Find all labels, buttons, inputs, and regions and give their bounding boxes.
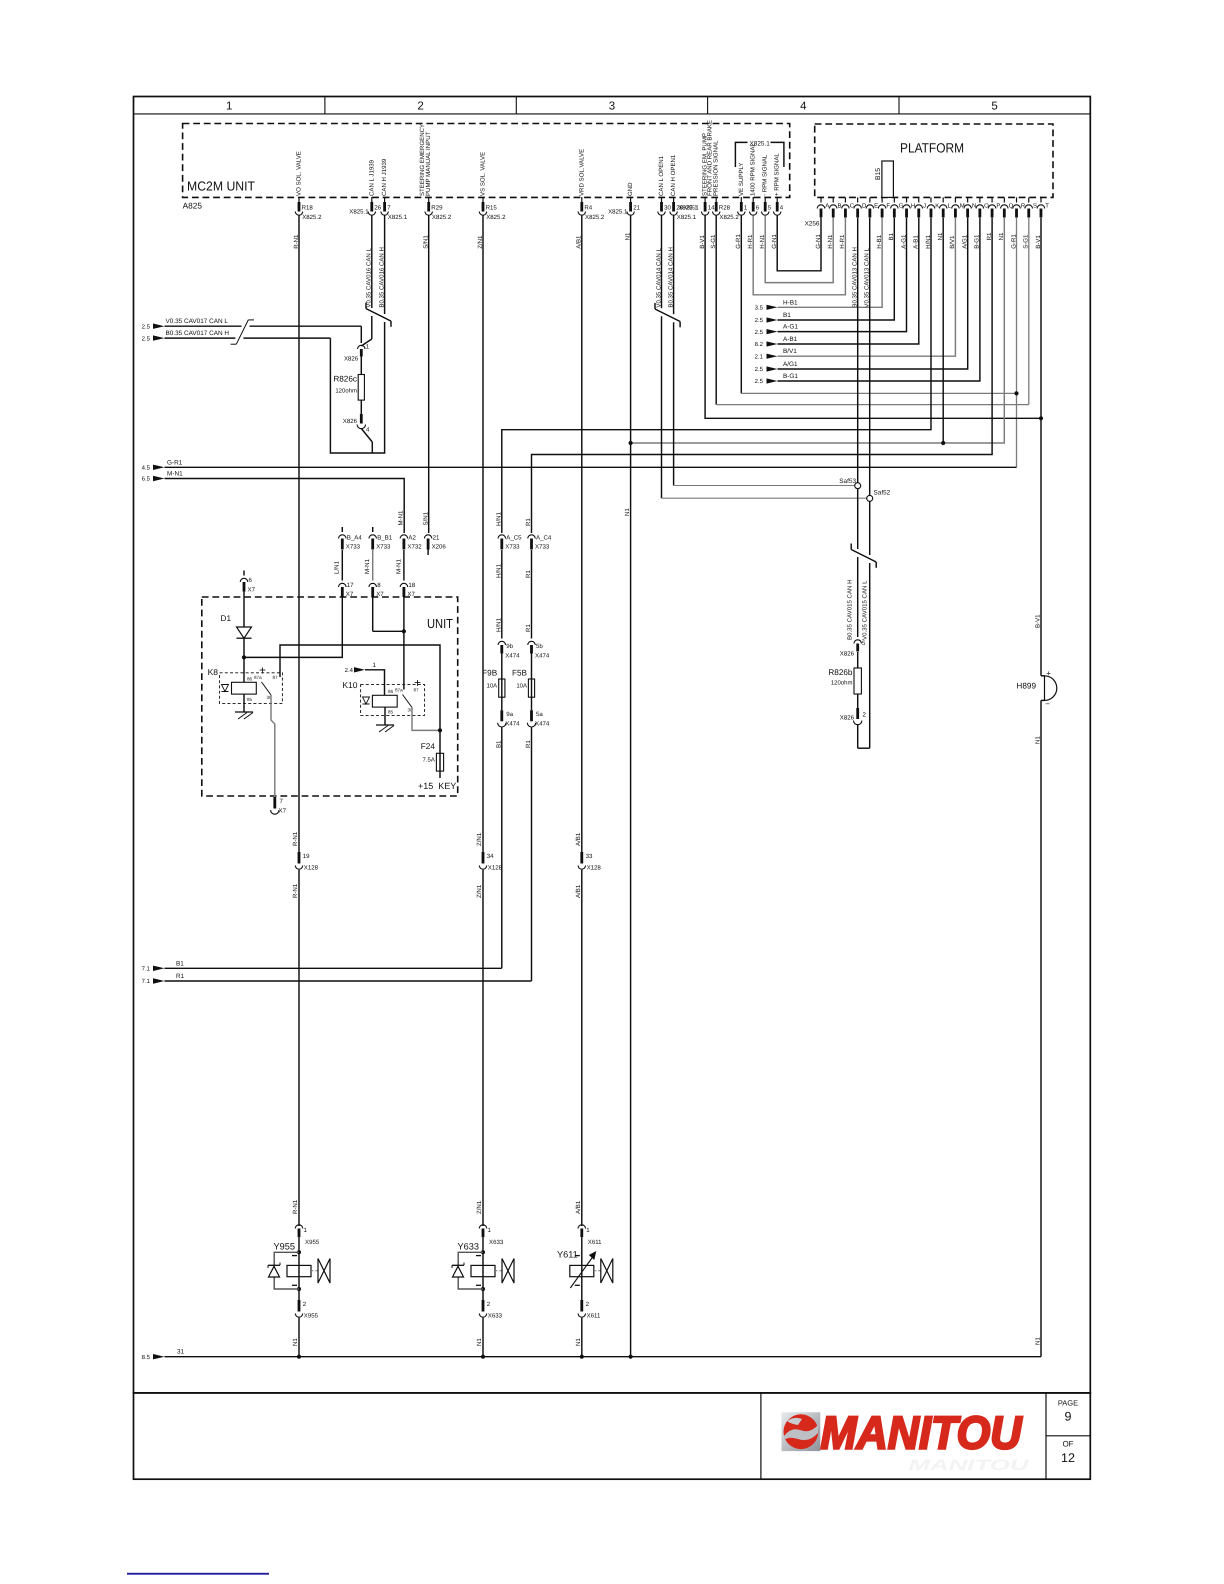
svg-text:- RPM SIGNAL: - RPM SIGNAL (762, 154, 769, 196)
svg-text:X825.1: X825.1 (388, 214, 408, 221)
svg-text:H/N1: H/N1 (495, 564, 502, 578)
svg-text:1: 1 (366, 344, 370, 351)
svg-text:PRESSION SIGNAL: PRESSION SIGNAL (713, 140, 720, 196)
svg-text:S: S (1033, 202, 1037, 209)
svg-text:A_C5: A_C5 (506, 535, 522, 542)
svg-text:5a: 5a (536, 711, 543, 718)
svg-text:N1: N1 (624, 508, 631, 516)
svg-text:X474: X474 (535, 653, 550, 660)
svg-text:X128: X128 (587, 865, 602, 872)
svg-text:8.2: 8.2 (755, 341, 764, 348)
svg-text:X611: X611 (588, 1239, 602, 1246)
svg-text:A_C4: A_C4 (536, 535, 552, 542)
svg-text:CAN H OPEN1: CAN H OPEN1 (670, 154, 677, 196)
svg-text:B15: B15 (875, 168, 882, 180)
svg-text:X825.2: X825.2 (302, 214, 322, 221)
svg-text:J: J (923, 202, 926, 209)
svg-text:X256: X256 (805, 221, 820, 228)
svg-text:R826c: R826c (333, 375, 357, 384)
svg-text:MANITOU: MANITOU (821, 1407, 1024, 1459)
svg-text:L/N1: L/N1 (334, 561, 341, 574)
svg-text:7.5A: 7.5A (423, 757, 435, 764)
svg-text:A825: A825 (183, 201, 203, 211)
svg-text:+: + (1046, 669, 1051, 678)
svg-text:H/N1: H/N1 (495, 512, 502, 526)
svg-text:B/V1: B/V1 (783, 348, 797, 355)
svg-text:B: B (838, 202, 842, 209)
svg-text:30: 30 (664, 205, 671, 212)
svg-text:B-G1: B-G1 (783, 373, 798, 380)
svg-text:P: P (996, 202, 1000, 209)
svg-text:Y633: Y633 (458, 1242, 479, 1252)
svg-text:87a: 87a (395, 688, 403, 693)
svg-text:X732: X732 (407, 544, 422, 551)
svg-text:26: 26 (374, 205, 381, 212)
svg-text:VS SOL. VALVE: VS SOL. VALVE (480, 152, 487, 196)
svg-text:R18: R18 (302, 205, 314, 212)
svg-text:4: 4 (780, 205, 784, 212)
svg-text:85: 85 (247, 697, 253, 702)
svg-text:18: 18 (408, 582, 415, 589)
svg-text:X825.2: X825.2 (585, 214, 605, 221)
svg-text:R-N1: R-N1 (292, 1199, 299, 1214)
svg-text:F9B: F9B (482, 669, 498, 678)
svg-text:X825.1: X825.1 (678, 205, 698, 212)
svg-text:UNIT: UNIT (427, 616, 453, 631)
svg-text:A: A (825, 202, 829, 209)
svg-text:Z/N1: Z/N1 (476, 1200, 483, 1214)
svg-text:N1: N1 (476, 1338, 483, 1346)
svg-text:R1: R1 (525, 740, 532, 748)
svg-text:Z/N1: Z/N1 (476, 884, 483, 898)
svg-text:R1: R1 (525, 570, 532, 578)
svg-text:X206: X206 (432, 544, 447, 551)
svg-text:VRD SOL.VALVE: VRD SOL.VALVE (578, 149, 585, 196)
svg-text:X825.1: X825.1 (608, 209, 628, 216)
svg-text:X7: X7 (346, 591, 354, 598)
svg-text:B_B1: B_B1 (377, 535, 393, 542)
svg-text:X825.1: X825.1 (349, 209, 369, 216)
svg-text:X826: X826 (344, 356, 359, 363)
svg-text:X7: X7 (407, 591, 415, 598)
svg-text:Z/N1: Z/N1 (476, 832, 483, 846)
svg-text:21: 21 (433, 535, 440, 542)
svg-text:2.4: 2.4 (345, 667, 354, 674)
svg-text:1400 RPM SIGNAL: 1400 RPM SIGNAL (750, 143, 757, 196)
svg-text:B0.35 CAV015 CAN H: B0.35 CAV015 CAN H (847, 579, 854, 640)
svg-text:6: 6 (756, 205, 760, 212)
svg-text:R1: R1 (525, 624, 532, 632)
svg-text:86: 86 (247, 677, 253, 682)
svg-text:2: 2 (417, 101, 423, 113)
svg-text:87a: 87a (254, 675, 262, 680)
svg-text:X825.2: X825.2 (432, 214, 452, 221)
svg-text:F: F (886, 202, 890, 209)
svg-text:K10: K10 (342, 680, 357, 690)
svg-text:5b: 5b (536, 643, 543, 650)
svg-text:M-N1: M-N1 (398, 510, 405, 526)
svg-text:A/G1: A/G1 (783, 361, 798, 368)
svg-text:X611: X611 (587, 1313, 601, 1320)
svg-text:R28: R28 (719, 205, 731, 212)
svg-text:Saf52: Saf52 (874, 490, 891, 497)
svg-text:2.1: 2.1 (755, 353, 764, 360)
svg-text:M-N1: M-N1 (395, 558, 402, 574)
svg-text:9a: 9a (506, 711, 513, 718)
svg-text:R-N1: R-N1 (292, 831, 299, 846)
svg-text:T: T (1045, 202, 1049, 209)
svg-text:N1: N1 (1035, 1337, 1042, 1345)
svg-text:+ RPM SIGNAL: + RPM SIGNAL (774, 153, 781, 196)
svg-text:10A: 10A (487, 683, 498, 690)
svg-text:M-N1: M-N1 (364, 558, 371, 574)
svg-text:R29: R29 (431, 205, 443, 212)
svg-text:−: − (1045, 700, 1050, 709)
svg-text:B_A4: B_A4 (347, 535, 363, 542)
svg-text:X7: X7 (248, 587, 256, 594)
svg-text:X474: X474 (505, 721, 520, 728)
svg-text:X7: X7 (279, 808, 287, 815)
svg-text:87: 87 (414, 688, 420, 693)
svg-text:X825.2: X825.2 (486, 214, 506, 221)
svg-text:1: 1 (586, 1227, 590, 1234)
svg-text:B1: B1 (176, 960, 184, 967)
svg-text:R1: R1 (176, 973, 185, 980)
svg-text:CAN L J1939: CAN L J1939 (368, 159, 375, 196)
svg-text:3: 3 (609, 101, 615, 113)
svg-text:R1: R1 (525, 518, 532, 526)
svg-text:4.5: 4.5 (142, 465, 151, 472)
svg-text:R15: R15 (486, 205, 498, 212)
svg-text:X825.1: X825.1 (677, 214, 697, 221)
svg-text:R826b: R826b (828, 668, 853, 677)
svg-text:2.5: 2.5 (755, 317, 764, 324)
svg-text:5: 5 (768, 205, 772, 212)
svg-text:9b: 9b (506, 643, 513, 650)
svg-text:85: 85 (388, 710, 394, 715)
svg-text:8.5: 8.5 (142, 1354, 151, 1361)
svg-text:86: 86 (388, 689, 394, 694)
svg-text:CAN H J1939: CAN H J1939 (381, 158, 388, 196)
svg-text:S/N1: S/N1 (422, 511, 429, 525)
svg-text:Y611: Y611 (557, 1250, 578, 1260)
svg-text:9: 9 (1065, 1410, 1072, 1424)
svg-text:2.5: 2.5 (755, 366, 764, 373)
svg-text:B1: B1 (495, 740, 502, 748)
svg-text:A/B1: A/B1 (575, 884, 582, 898)
svg-text:2: 2 (303, 1301, 307, 1308)
svg-text:PLATFORM: PLATFORM (900, 141, 964, 156)
svg-text:X474: X474 (535, 721, 550, 728)
svg-text:A/B1: A/B1 (575, 832, 582, 846)
svg-text:X733: X733 (535, 544, 550, 551)
svg-text:3.5: 3.5 (755, 305, 764, 312)
svg-text:X733: X733 (505, 544, 520, 551)
svg-text:17: 17 (347, 582, 354, 589)
svg-text:120ohm: 120ohm (335, 388, 357, 395)
svg-text:MC2M UNIT: MC2M UNIT (187, 179, 255, 194)
svg-text:H/N1: H/N1 (495, 618, 502, 632)
svg-text:X826: X826 (840, 651, 855, 658)
svg-text:X826: X826 (343, 418, 358, 425)
svg-text:Saf53: Saf53 (839, 478, 856, 485)
svg-text:+15 KEY: +15 KEY (418, 781, 456, 791)
svg-text:1: 1 (373, 662, 377, 669)
svg-text:2: 2 (487, 1301, 491, 1308)
svg-text:X633: X633 (489, 1239, 504, 1246)
svg-text:H-B1: H-B1 (783, 299, 798, 306)
svg-text:X7: X7 (376, 591, 384, 598)
svg-text:PUMP MANUAL INPUT: PUMP MANUAL INPUT (425, 131, 432, 196)
svg-text:2.5: 2.5 (755, 329, 764, 336)
svg-text:K: K (935, 202, 939, 209)
svg-text:F5B: F5B (512, 669, 528, 678)
svg-text:VE SUPPLY: VE SUPPLY (738, 163, 745, 196)
svg-text:4: 4 (800, 101, 807, 113)
svg-text:B0.35 CAV017 CAN H: B0.35 CAV017 CAN H (166, 330, 230, 337)
svg-text:X733: X733 (346, 544, 361, 551)
svg-text:G-R1: G-R1 (167, 459, 183, 466)
svg-text:34: 34 (487, 853, 494, 860)
svg-text:X826: X826 (840, 715, 855, 722)
svg-text:6.5: 6.5 (142, 476, 151, 483)
svg-text:X128: X128 (304, 865, 319, 872)
svg-text:120ohm: 120ohm (831, 680, 853, 687)
svg-text:A2: A2 (408, 535, 416, 542)
svg-text:K8: K8 (208, 667, 219, 677)
svg-text:X955: X955 (304, 1313, 319, 1320)
svg-text:E: E (874, 202, 878, 209)
svg-text:V0.35 CAV015 CAN L: V0.35 CAV015 CAN L (862, 580, 869, 640)
svg-text:X955: X955 (305, 1239, 320, 1246)
svg-text:X733: X733 (376, 544, 391, 551)
svg-text:PAGE: PAGE (1058, 1399, 1078, 1408)
svg-text:X474: X474 (505, 653, 520, 660)
svg-text:12: 12 (1061, 1451, 1075, 1465)
svg-text:10A: 10A (516, 683, 527, 690)
svg-text:GND: GND (627, 182, 634, 196)
svg-text:N1: N1 (292, 1338, 299, 1346)
svg-text:14: 14 (708, 205, 715, 212)
svg-text:5: 5 (991, 101, 997, 113)
svg-text:VO SOL. VALVE: VO SOL. VALVE (296, 151, 303, 196)
svg-text:N1: N1 (1035, 736, 1042, 744)
svg-text:X128: X128 (488, 865, 503, 872)
svg-text:31: 31 (177, 1349, 185, 1356)
svg-text:Y955: Y955 (274, 1242, 295, 1252)
svg-text:MANITOU: MANITOU (909, 1457, 1031, 1474)
svg-text:X633: X633 (488, 1313, 503, 1320)
svg-text:33: 33 (586, 853, 593, 860)
svg-text:N1: N1 (575, 1338, 582, 1346)
svg-text:D1: D1 (221, 614, 232, 623)
svg-text:CAN L OPEN1: CAN L OPEN1 (658, 155, 665, 196)
svg-text:M-N1: M-N1 (167, 471, 183, 478)
svg-text:R4: R4 (584, 205, 592, 212)
svg-text:2.5: 2.5 (142, 323, 151, 330)
svg-text:2.5: 2.5 (142, 335, 151, 342)
svg-text:B1: B1 (783, 312, 791, 319)
svg-text:B-V1: B-V1 (1035, 614, 1042, 628)
svg-text:7.1: 7.1 (142, 978, 151, 985)
svg-text:X825.2: X825.2 (719, 214, 739, 221)
svg-text:V0.35 CAV017 CAN L: V0.35 CAV017 CAN L (166, 318, 229, 325)
svg-text:OF: OF (1062, 1440, 1073, 1449)
svg-text:F24: F24 (421, 742, 436, 751)
svg-text:H899: H899 (1016, 682, 1036, 691)
svg-text:A/B1: A/B1 (575, 1200, 582, 1214)
svg-text:21: 21 (633, 205, 640, 212)
svg-text:A-B1: A-B1 (783, 336, 798, 343)
svg-text:2.5: 2.5 (755, 378, 764, 385)
svg-text:7.1: 7.1 (142, 966, 151, 973)
svg-text:R-N1: R-N1 (292, 883, 299, 898)
svg-text:19: 19 (303, 853, 310, 860)
svg-text:87: 87 (273, 675, 279, 680)
svg-text:1: 1 (226, 101, 232, 113)
svg-text:A-G1: A-G1 (783, 324, 798, 331)
